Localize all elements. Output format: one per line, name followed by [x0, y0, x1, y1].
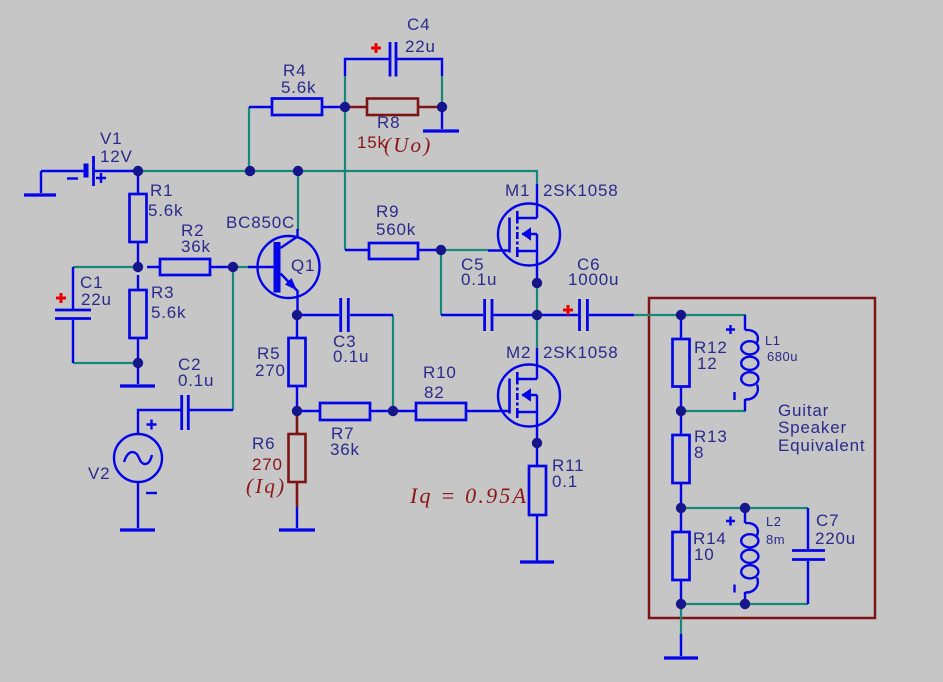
wire Q1 collector drop — [297, 171, 299, 231]
resistor R8 — [345, 99, 442, 116]
resistor R11 — [529, 443, 546, 561]
node Q1 collector — [293, 166, 303, 176]
svg-text:220u: 220u — [815, 529, 856, 548]
node R9/C5/M1 gate — [436, 245, 446, 255]
guitar speaker equivalent box — [649, 298, 875, 618]
resistor R5 — [289, 315, 306, 411]
mosfet M2 — [498, 348, 560, 443]
capacitor C7 — [792, 508, 825, 604]
mosfet M1 — [488, 184, 560, 283]
ground at speaker box — [664, 634, 698, 658]
svg-text:C4: C4 — [407, 15, 430, 34]
svg-text:R9: R9 — [376, 202, 399, 221]
wire C1 top to base node — [73, 266, 138, 268]
svg-text:36k: 36k — [330, 440, 360, 459]
transistor Q1 — [248, 229, 320, 315]
node Q1 emitter — [292, 310, 302, 320]
ground at V1 — [24, 171, 56, 195]
svg-text:0.1u: 0.1u — [461, 270, 497, 289]
svg-text:R3: R3 — [151, 283, 174, 302]
ground at C1/R3 node — [120, 363, 155, 386]
capacitor C2 — [138, 395, 233, 434]
svg-text:Iq = 0.95A: Iq = 0.95A — [409, 483, 528, 508]
svg-text:2SK1058: 2SK1058 — [543, 343, 619, 362]
resistor R10 — [393, 403, 509, 420]
wire base net down to C2 x=233 — [232, 267, 234, 410]
resistor R6 — [289, 416, 306, 507]
ground at R11 — [520, 560, 554, 563]
svg-text:36k: 36k — [181, 237, 211, 256]
source V2 — [114, 420, 162, 494]
node R5/R6/R7 — [292, 406, 302, 416]
svg-text:M2: M2 — [506, 343, 531, 362]
ground at R6 — [279, 507, 315, 530]
svg-text:12V: 12V — [100, 147, 133, 166]
svg-text:L1: L1 — [765, 333, 780, 348]
svg-text:R8: R8 — [377, 113, 400, 132]
svg-text:270: 270 — [252, 455, 283, 474]
svg-text:Q1: Q1 — [291, 256, 315, 275]
svg-text:8: 8 — [694, 443, 704, 462]
resistor R13 — [673, 411, 690, 508]
node L2 bottom — [740, 599, 750, 609]
node V1/R1 — [133, 166, 143, 176]
wire speaker bottom to ground — [680, 604, 682, 640]
wire base node to Q1 — [233, 266, 248, 268]
svg-text:V1: V1 — [100, 129, 122, 148]
plus C6 — [563, 305, 573, 315]
svg-text:(Uo): (Uo) — [384, 133, 432, 157]
wire bottom row L2/C7 — [681, 603, 808, 605]
capacitor C3 — [297, 298, 393, 332]
node L2 top — [740, 503, 750, 513]
svg-text:270: 270 — [255, 361, 286, 380]
ground at V2 — [120, 482, 155, 530]
resistor R2 — [147, 259, 233, 275]
wire 12V rail y=171 to M1 drain — [138, 171, 537, 184]
node M1 source — [532, 278, 542, 288]
wire Uo net x=345 (C4 to R9, crosses rail) — [344, 76, 346, 250]
node R12 top — [676, 310, 686, 320]
svg-text:5.6k: 5.6k — [148, 201, 183, 220]
svg-text:0.1u: 0.1u — [333, 347, 369, 366]
svg-text:15k: 15k — [357, 133, 387, 152]
wire R9 right to C5 — [440, 250, 442, 315]
resistor R9 — [345, 243, 441, 259]
svg-text:0.1u: 0.1u — [178, 371, 214, 390]
svg-text:1000u: 1000u — [568, 270, 619, 289]
wire C3 right down to R7 node — [392, 315, 394, 411]
wire C4 right drop x=442 — [441, 76, 443, 107]
plus C4 — [371, 43, 381, 53]
svg-text:82: 82 — [424, 383, 445, 402]
capacitor C4 — [345, 42, 442, 77]
resistor R3 — [130, 275, 147, 363]
resistor R12 — [673, 315, 690, 411]
wire R9 node to M1 gate — [441, 249, 488, 251]
node R13/R14 — [676, 503, 686, 513]
wire R12 bottom / L1 bottom — [681, 410, 746, 412]
node R1/R2/R3/C1 — [133, 262, 143, 272]
resistor R4 — [249, 99, 345, 116]
svg-text:5.6k: 5.6k — [281, 78, 316, 97]
wire C1 bottom to ground node — [73, 362, 138, 364]
node output — [532, 310, 542, 320]
node R7/R10/C3 — [388, 406, 398, 416]
svg-text:5.6k: 5.6k — [151, 303, 186, 322]
svg-text:M1: M1 — [505, 181, 530, 200]
node Uo (R4/R8/C4) — [340, 102, 350, 112]
resistor R1 — [130, 171, 147, 267]
node dots — [133, 102, 750, 609]
inductor L1 — [726, 315, 758, 411]
svg-text:L2: L2 — [766, 514, 781, 529]
svg-text:Speaker: Speaker — [778, 418, 847, 437]
svg-text:Equivalent: Equivalent — [778, 436, 865, 455]
svg-text:680u: 680u — [767, 349, 798, 364]
capacitor C1 — [55, 267, 91, 363]
plus C1 — [56, 293, 66, 303]
inductor L2 — [726, 508, 758, 604]
svg-text:R6: R6 — [252, 434, 275, 453]
wire M1 source to output node — [536, 283, 538, 315]
node Q1 base — [228, 262, 238, 272]
node C1/R3 gnd — [133, 358, 143, 368]
svg-text:560k: 560k — [376, 220, 416, 239]
svg-text:(Iq): (Iq) — [246, 474, 286, 498]
capacitor C5 — [441, 299, 537, 331]
node C4/R8 ground — [437, 102, 447, 112]
svg-text:BC850C: BC850C — [226, 213, 295, 232]
node R4 drop — [245, 166, 255, 176]
node M2 source — [532, 438, 542, 448]
node R14 bottom — [676, 599, 686, 609]
ground at C4/R8 — [423, 107, 459, 131]
resistor R14 — [673, 508, 690, 604]
wire R4 left drop x=249 — [248, 107, 250, 171]
svg-text:R10: R10 — [423, 363, 457, 382]
svg-text:10: 10 — [694, 545, 715, 564]
node R12/R13 — [676, 406, 686, 416]
resistor R7 — [297, 403, 393, 420]
svg-text:12: 12 — [697, 354, 718, 373]
wire output node to M2 drain — [536, 315, 538, 348]
battery V1 — [41, 156, 133, 186]
svg-text:V2: V2 — [88, 464, 110, 483]
svg-text:0.1: 0.1 — [552, 472, 578, 491]
svg-text:8m: 8m — [766, 532, 785, 547]
svg-text:C7: C7 — [816, 511, 839, 530]
svg-text:22u: 22u — [81, 290, 112, 309]
svg-text:R1: R1 — [150, 181, 173, 200]
svg-text:2SK1058: 2SK1058 — [543, 181, 619, 200]
wire output to speaker box — [634, 314, 746, 316]
capacitor C6 — [537, 299, 634, 331]
svg-text:22u: 22u — [405, 37, 436, 56]
wire node row to L2 and C7 top — [681, 507, 808, 509]
